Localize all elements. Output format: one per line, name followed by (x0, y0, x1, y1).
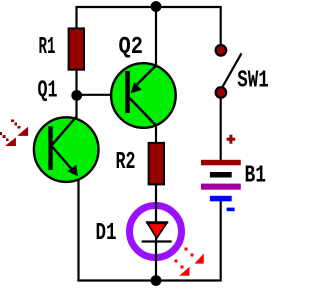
LED D1 anode bar (146, 221, 169, 223)
light-in arrow 2 at Q1 (0, 132, 16, 146)
light-out arrow 1 at D1 (184, 247, 203, 263)
battery B1 plate 4 (short, blue) (210, 196, 232, 202)
node junction dot top (151, 1, 162, 12)
wire Q1 emitter down to bottom rail (77, 179, 79, 282)
battery plus sign (229, 135, 232, 144)
light-out arrow 2 at D1 (174, 260, 189, 276)
transistor Q1 (34, 117, 99, 182)
node junction dot bottom (151, 275, 162, 286)
LED D1 purple ring (130, 206, 182, 258)
wire left column top (rail to R1) (75, 6, 77, 29)
LED D1 cathode bar (142, 240, 172, 242)
wire bottom rail (77, 279, 220, 281)
svg-text:SW1: SW1 (237, 68, 268, 95)
battery B1 plate 2 (short, black) (210, 172, 232, 178)
wire node to Q1 base stub of Q2 (77, 94, 133, 96)
svg-text:R2: R2 (116, 149, 136, 176)
switch SW1 top contact (216, 45, 227, 56)
switch SW1 lever (223, 53, 242, 86)
resistor R1 (69, 28, 84, 69)
transistor Q2 (111, 63, 176, 128)
LED D1 triangle (148, 223, 167, 238)
battery B1 plate 3 (long, purple) (201, 184, 241, 190)
wire battery to bottom rail (220, 200, 222, 282)
light-in arrow 1 at Q1 (11, 119, 28, 135)
svg-text:Q2: Q2 (119, 34, 144, 61)
svg-text:B1: B1 (245, 163, 267, 190)
wire right column (rail to SW1) (220, 6, 222, 45)
svg-text:D1: D1 (96, 220, 117, 247)
battery B1 plate 1 (+, long, dark red) (201, 160, 241, 166)
node junction dot Q1 base net (71, 90, 82, 101)
wire middle column (top dot to Q2) (155, 6, 157, 66)
wire R1 bottom to node (75, 69, 77, 96)
wire SW1 to battery (220, 97, 222, 160)
svg-text:R1: R1 (39, 34, 56, 61)
switch SW1 bottom contact (216, 87, 227, 98)
wire Q2 to R2 (155, 125, 157, 143)
svg-text:Q1: Q1 (38, 78, 58, 105)
wire top rail (77, 6, 221, 8)
battery minus sign (227, 208, 235, 212)
resistor R2 (149, 143, 164, 185)
wire R2 through LED to bottom rail (155, 185, 157, 281)
wire node down to Q1 (75, 95, 77, 119)
